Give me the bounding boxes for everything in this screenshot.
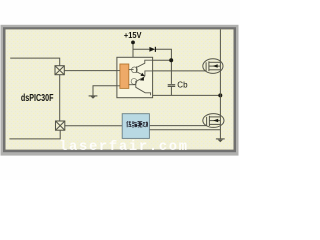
svg-text:laserfair.com: laserfair.com bbox=[59, 139, 189, 155]
svg-text:dsPIC30F: dsPIC30F bbox=[21, 93, 54, 104]
svg-text:+15V: +15V bbox=[124, 31, 142, 40]
svg-text:Cb: Cb bbox=[177, 80, 188, 89]
